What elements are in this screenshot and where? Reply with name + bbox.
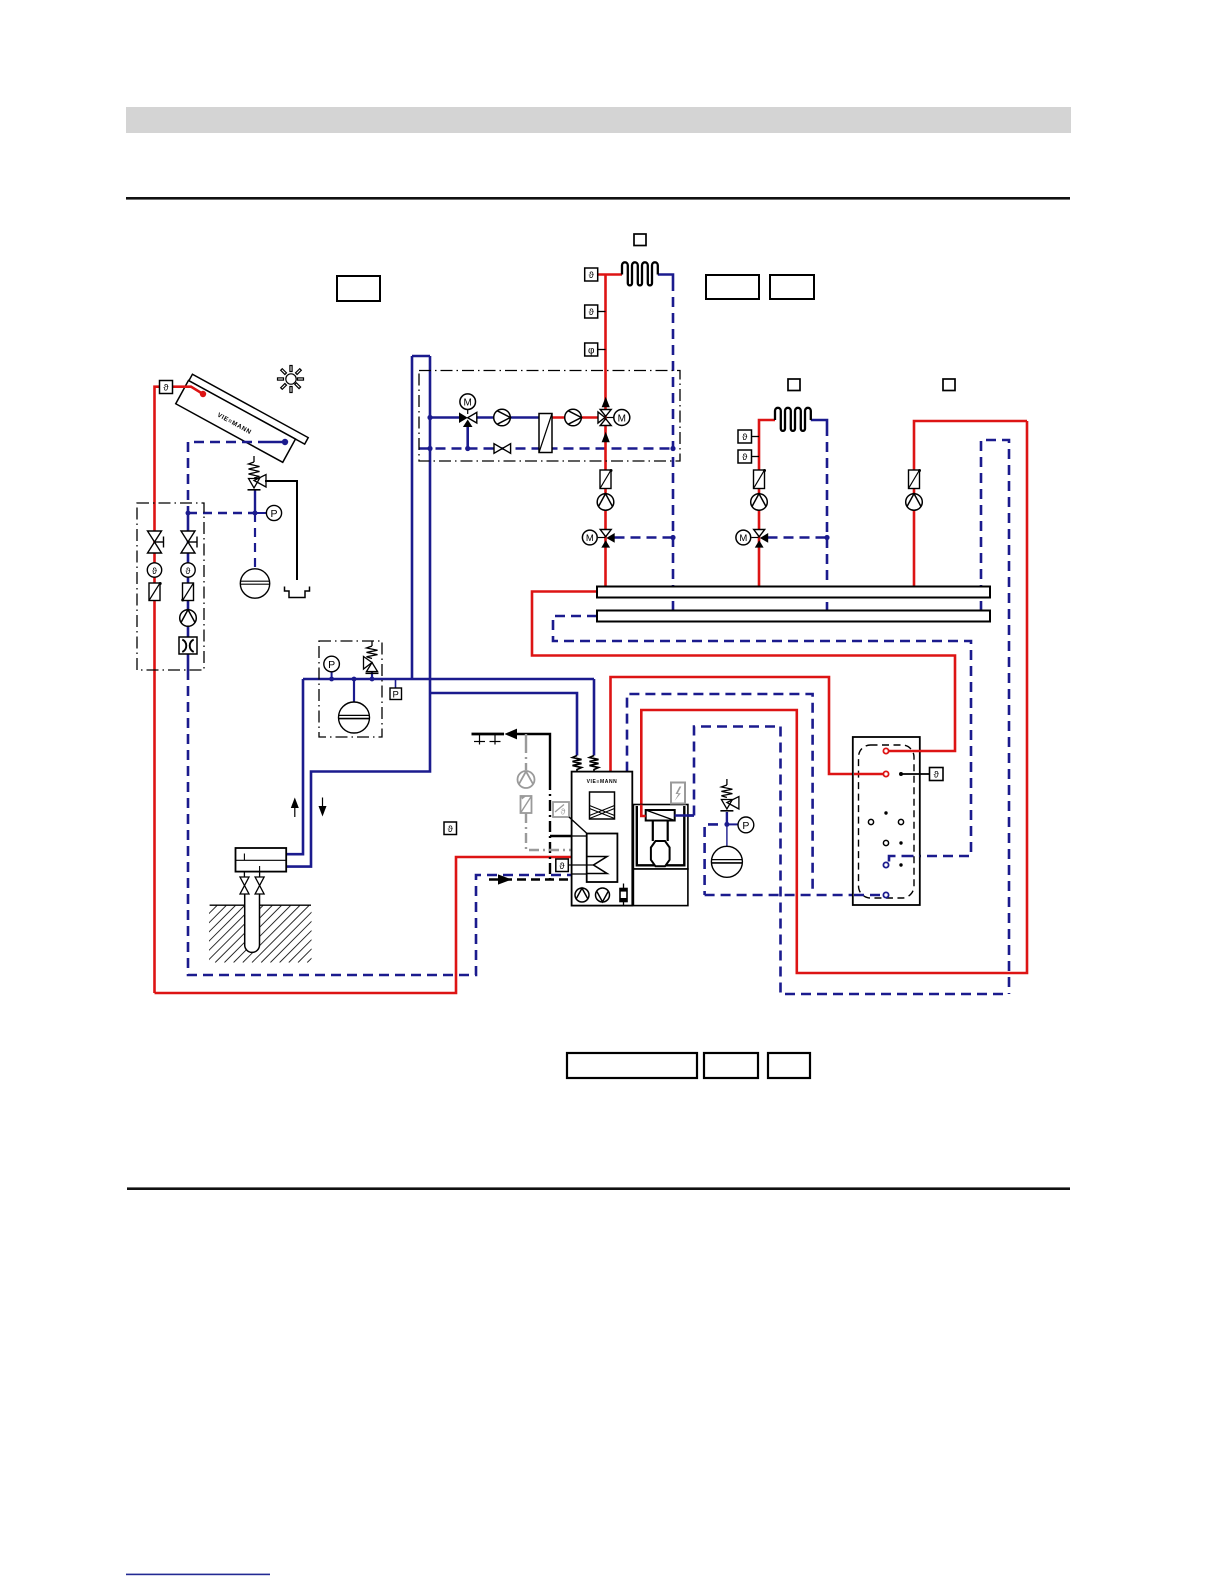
mixing valve V2 with motor bbox=[598, 410, 630, 426]
bottom rule bbox=[127, 1187, 1070, 1190]
node solar safety junction bbox=[253, 511, 258, 516]
title bar bbox=[126, 107, 1071, 133]
wire circuit2 valve dashed link bbox=[768, 536, 828, 539]
sensor solar return thermometer bbox=[181, 563, 195, 577]
ground source unit box bbox=[236, 848, 287, 872]
wire solar junction dashed link bbox=[188, 512, 255, 514]
wire circuit3 return dashed loop bbox=[981, 440, 1009, 994]
sensor outdoor standalone bbox=[444, 822, 457, 835]
safety valve boiler bbox=[720, 779, 739, 811]
valve shutoff solar return bbox=[181, 531, 197, 553]
tank ring mid bbox=[883, 840, 888, 845]
svg-text:M: M bbox=[618, 413, 626, 424]
svg-text:ϑ: ϑ bbox=[186, 566, 191, 576]
valve probe 1 bbox=[240, 872, 249, 894]
radiator circuit2 coil bbox=[775, 408, 811, 431]
node circuit1 return junction bbox=[670, 446, 675, 451]
burner unit body bbox=[633, 805, 688, 870]
tank small dot a bbox=[884, 811, 887, 814]
boiler compressor box bbox=[590, 792, 615, 819]
pump mixer primary bbox=[494, 409, 511, 426]
check valve condensate gray bbox=[521, 795, 532, 813]
wire circuit3 supply drop red bbox=[641, 421, 1027, 973]
drain funnel bbox=[285, 587, 310, 598]
wire brine top loop bbox=[412, 355, 430, 358]
wire mixer supply blue bbox=[430, 416, 460, 419]
wire tank sensor link bbox=[901, 773, 930, 775]
wire manifold flow feed red bbox=[532, 592, 955, 752]
manifold return bar bbox=[597, 611, 990, 622]
radiator circuit1 coil bbox=[622, 262, 658, 285]
node collector flow port red dot bbox=[200, 391, 206, 397]
svg-text:P: P bbox=[328, 659, 335, 671]
regulating valve solar flow bbox=[149, 582, 162, 601]
pump circuit3 bbox=[906, 494, 923, 511]
wire solar expansion vessel dashed stem bbox=[254, 513, 256, 569]
wire hp safety valve stem bbox=[371, 672, 373, 679]
wire boiler safety stem bbox=[726, 812, 728, 824]
ground probe u-tube bbox=[245, 894, 260, 952]
svg-text:M: M bbox=[586, 533, 594, 544]
legend box 1 bbox=[567, 1053, 697, 1078]
cold water inlet symbol bbox=[472, 734, 505, 745]
wire solar return blue through station bbox=[187, 513, 190, 670]
wire tank return entry overlay bbox=[889, 856, 920, 862]
wire burner blue link bbox=[675, 814, 695, 817]
wire solar safety drain black bbox=[265, 481, 297, 580]
label square circuit3 bbox=[943, 379, 955, 391]
regulating valve circuit1 bbox=[600, 469, 613, 489]
gauge boiler pressure P bbox=[738, 817, 754, 833]
wire condensate gray dashdot upper bbox=[525, 746, 527, 771]
valve probe 2 bbox=[255, 872, 264, 894]
wire HX to circuit red bbox=[552, 416, 600, 419]
svg-text:ϑ: ϑ bbox=[152, 566, 157, 576]
sensor solar flow thermometer bbox=[147, 563, 161, 577]
svg-text:ϑ: ϑ bbox=[561, 807, 566, 817]
wire solar return blue solid stub at collector bbox=[268, 441, 285, 444]
boiler spring connector 2 bbox=[590, 756, 599, 772]
wire mixer valve drop blue bbox=[466, 424, 469, 449]
svg-text:ϑ: ϑ bbox=[589, 307, 595, 318]
wire brine main y679 bbox=[303, 678, 594, 681]
node collector return port blue dot bbox=[282, 439, 288, 445]
wire manifold return feed dashed bbox=[553, 616, 971, 863]
boiler heater element bbox=[620, 884, 628, 906]
tank sensor tap dot bbox=[899, 772, 903, 776]
regulating valve solar return bbox=[181, 583, 193, 602]
sun symbol bbox=[272, 360, 309, 397]
wire circuit2 supply red bbox=[759, 420, 775, 587]
svg-text:ϑ: ϑ bbox=[934, 770, 940, 781]
wire circuit1 top red bbox=[598, 273, 622, 276]
wire brine riser x412 bbox=[411, 356, 414, 679]
burner pipe right bbox=[667, 821, 669, 842]
sensor boiler flue gray bbox=[553, 802, 569, 817]
regulating valve circuit3 bbox=[909, 469, 922, 489]
label box top left bbox=[337, 276, 380, 301]
wire brine y693 bbox=[430, 693, 577, 756]
expansion vessel solar bbox=[240, 569, 269, 598]
wire boiler inner return dashed bbox=[694, 727, 781, 816]
ground surface line bbox=[210, 904, 311, 906]
gauge solar pressure P bbox=[266, 505, 281, 520]
gauge hp P square bbox=[390, 688, 402, 701]
svg-text:ϑ: ϑ bbox=[559, 861, 565, 872]
diverting valve circuit1 with motor bbox=[582, 530, 614, 548]
wire hp expansion stem bbox=[353, 679, 355, 702]
wire burner red entry overlay bbox=[641, 805, 645, 817]
sensor circuit2 upper bbox=[738, 430, 759, 443]
node boiler safety junction bbox=[724, 822, 729, 827]
pump boiler 2 bbox=[596, 888, 610, 902]
tank dot lower bbox=[899, 863, 902, 866]
svg-text:ϑ: ϑ bbox=[742, 432, 748, 443]
wire circuit1 return dashed bbox=[672, 281, 675, 611]
wire mixer return dashed y448 bbox=[420, 447, 674, 450]
sensor boiler dhw bbox=[556, 859, 569, 872]
node mixer valve return junction bbox=[465, 446, 470, 451]
wire boiler outer return dashed bbox=[627, 694, 813, 894]
enclosure solar station box bbox=[137, 503, 204, 670]
wire boiler return dashed bottom loop bbox=[781, 727, 1010, 995]
check valve solar bbox=[179, 637, 197, 654]
wire sensor link diagonal bbox=[569, 817, 587, 834]
wire tank flow overlay mid bbox=[854, 773, 883, 776]
wire circuit1 riser red bbox=[604, 275, 607, 587]
svg-text:P: P bbox=[270, 508, 277, 520]
heat exchanger plate bbox=[539, 414, 552, 453]
arrow flow up below V2 bbox=[602, 432, 610, 442]
burner inner frame bbox=[637, 806, 685, 865]
wire solar return blue dashed collector to station bbox=[188, 442, 268, 513]
enclosure heating center box bbox=[419, 371, 680, 462]
svg-text:ϑ: ϑ bbox=[163, 383, 169, 394]
burner bottom compartment bbox=[633, 869, 688, 906]
sensor ignition lightning gray bbox=[671, 783, 685, 804]
svg-text:M: M bbox=[739, 533, 747, 544]
sensor circuit1 flow meter bbox=[585, 343, 606, 356]
storage tank inner dashed bbox=[859, 745, 915, 898]
wire brine riser x430 bbox=[286, 356, 430, 867]
pump boiler 1 bbox=[575, 888, 589, 902]
sensor tank temperature bbox=[930, 768, 944, 781]
wire condensate gray lower bbox=[526, 813, 587, 850]
pump circuit2 bbox=[751, 494, 768, 511]
wire solar flow red bottom run to boiler bbox=[155, 857, 572, 993]
wire burner blue exit overlay bbox=[675, 814, 695, 817]
arrow brine down bbox=[319, 798, 327, 817]
node circuit2 bypass junction bbox=[824, 535, 829, 540]
safety valve hp bbox=[364, 641, 379, 673]
expansion vessel hp bbox=[339, 702, 370, 733]
tank port return bbox=[883, 862, 888, 867]
node mixer supply junction bbox=[427, 415, 432, 420]
wire boiler flow red top bbox=[611, 677, 887, 774]
wire solar flow red from collector to solar station bbox=[155, 387, 204, 993]
wire brine spring drop x594 bbox=[593, 679, 596, 756]
burner compressor octagon bbox=[651, 841, 670, 866]
node hp vessel junction bbox=[352, 677, 357, 682]
burner pipe left bbox=[652, 821, 654, 842]
pump mixer secondary bbox=[565, 409, 582, 426]
manifold flow bar bbox=[597, 587, 990, 598]
wire hp safety P stem bbox=[331, 672, 333, 679]
storage tank body bbox=[853, 737, 920, 905]
tank ring left bbox=[868, 819, 873, 824]
wire circuit3 supply red bbox=[914, 421, 1027, 587]
arrow dhw outlet bbox=[498, 874, 512, 884]
arrow cold water bbox=[505, 729, 518, 740]
wire circuit2 return solid blue bbox=[811, 420, 827, 426]
regulating valve circuit2 bbox=[754, 469, 767, 489]
label box top right bbox=[770, 275, 814, 299]
wire boiler P stub bbox=[727, 823, 738, 825]
label box top mid bbox=[706, 275, 759, 299]
sensor circuit1 flow lower bbox=[585, 305, 606, 318]
node solar return junction bbox=[186, 511, 191, 516]
enclosure hp safety group box bbox=[319, 641, 382, 737]
wire solar P gauge stub bbox=[255, 512, 266, 514]
sensor collector temperature box bbox=[160, 381, 173, 394]
svg-text:ϑ: ϑ bbox=[589, 270, 595, 281]
mixing valve V1 with motor bbox=[459, 394, 477, 427]
svg-text:M: M bbox=[464, 398, 472, 409]
svg-text:φ: φ bbox=[588, 345, 595, 356]
wire cold water black bbox=[517, 734, 550, 779]
wire mixer valve to HX blue bbox=[476, 416, 540, 419]
boiler heat pump body bbox=[572, 772, 633, 906]
node circuit1 bypass junction bbox=[670, 535, 675, 540]
tank dot mid bbox=[899, 841, 902, 844]
node mixer return junction left bbox=[427, 446, 432, 451]
wire boiler expansion stem bbox=[726, 824, 728, 846]
wire circuit1 return solid blue bbox=[658, 275, 673, 282]
burner injector slant box bbox=[646, 810, 675, 821]
svg-text:P: P bbox=[393, 690, 399, 701]
tank port flow mid bbox=[883, 771, 888, 776]
wire dhw riser dashdot black bbox=[549, 779, 551, 880]
svg-text:ϑ: ϑ bbox=[448, 824, 454, 835]
wire dhw outlet dashed black bbox=[489, 878, 587, 880]
pump condensate gray bbox=[518, 771, 535, 788]
node hp safety junction bbox=[370, 677, 375, 682]
sensor circuit2 lower bbox=[738, 450, 759, 463]
check valve mixer return bbox=[494, 444, 511, 454]
svg-text:VIE≡MANN: VIE≡MANN bbox=[587, 779, 618, 785]
svg-text:ϑ: ϑ bbox=[742, 452, 748, 463]
boiler spring connector 1 bbox=[573, 756, 582, 772]
top rule bbox=[126, 197, 1070, 200]
pump solar bbox=[180, 610, 197, 627]
wire hp P square stem bbox=[395, 679, 397, 688]
valve shutoff solar flow bbox=[148, 531, 164, 553]
boiler dhw tank box bbox=[587, 834, 618, 883]
wire expansion box dashed bbox=[705, 824, 718, 895]
tank port flow top bbox=[883, 748, 888, 753]
label square circuit2 bbox=[788, 379, 800, 391]
wire tank bottom return dashed bbox=[705, 894, 886, 897]
wire brine riser x303 bbox=[286, 679, 303, 854]
arrow brine up bbox=[291, 798, 299, 818]
wire circuit1 valve dashed link bbox=[615, 536, 674, 539]
wire condensate gray riser bbox=[525, 734, 527, 746]
expansion vessel boiler bbox=[711, 846, 742, 877]
boiler dhw coil sigma bbox=[587, 857, 607, 874]
node hp gauge junction bbox=[329, 677, 334, 682]
legend box 3 bbox=[768, 1053, 810, 1078]
wire circuit2 return dashed bbox=[826, 426, 829, 611]
footer link line bbox=[126, 1574, 270, 1576]
boiler internal stubs bbox=[568, 836, 594, 874]
wire tank bottom entry overlay bbox=[854, 894, 883, 897]
sensor circuit1 flow upper bbox=[585, 268, 598, 281]
pump circuit1 bbox=[597, 494, 614, 511]
ground hatch bbox=[142, 906, 401, 963]
wire tank flow overlay top bbox=[889, 750, 921, 753]
tank port bottom bbox=[883, 892, 888, 897]
label square circuit1 bbox=[634, 234, 646, 246]
diverting valve circuit2 with motor bbox=[736, 530, 768, 548]
wire cold feed into boiler black bbox=[550, 835, 587, 837]
wire solar safety valve stem bbox=[254, 490, 256, 513]
tank ring right bbox=[898, 819, 903, 824]
svg-text:P: P bbox=[742, 820, 749, 832]
wire solar return blue dashed bottom run to boiler bbox=[188, 670, 572, 975]
safety valve solar bbox=[248, 456, 267, 490]
gauge hp pressure P bbox=[324, 656, 340, 672]
legend box 2 bbox=[704, 1053, 758, 1078]
arrow flow up above V2 bbox=[602, 397, 610, 407]
solar collector panel bbox=[176, 374, 309, 467]
